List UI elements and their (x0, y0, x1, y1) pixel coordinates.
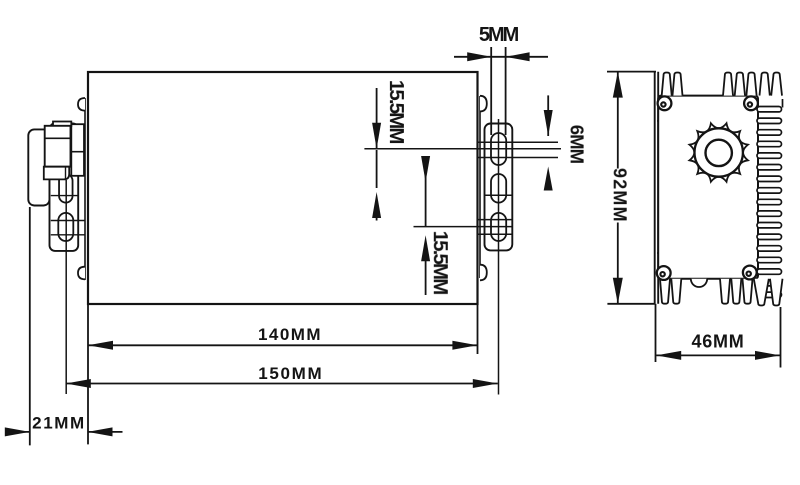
svg-text:140MM: 140MM (258, 325, 322, 344)
svg-text:6MM: 6MM (567, 125, 588, 164)
svg-text:150MM: 150MM (258, 364, 323, 383)
svg-text:46MM: 46MM (691, 332, 744, 352)
svg-text:21MM: 21MM (32, 414, 86, 433)
svg-text:92MM: 92MM (610, 168, 630, 223)
svg-text:15.5MM: 15.5MM (429, 231, 452, 294)
svg-text:15.5MM: 15.5MM (385, 80, 408, 143)
svg-text:5MM: 5MM (479, 24, 519, 46)
